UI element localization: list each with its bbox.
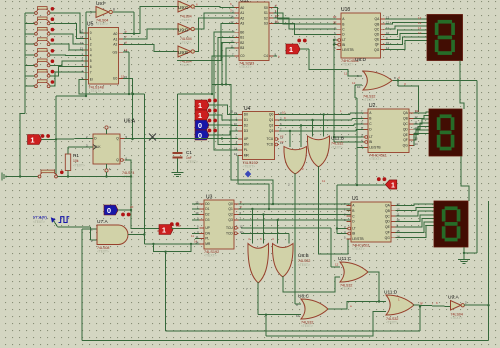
svg-text:12: 12 <box>418 21 422 25</box>
net label <box>322 179 325 183</box>
logic tag 0a <box>195 119 217 131</box>
wire U8B g2 out <box>283 276 340 292</box>
svg-text:A0: A0 <box>240 6 244 10</box>
svg-text:<TEXT>: <TEXT> <box>369 157 382 161</box>
net label <box>418 16 422 20</box>
svg-text:QE: QE <box>385 225 391 229</box>
svg-text:PL: PL <box>205 237 209 241</box>
IC U10 74HC4511 <box>334 7 390 67</box>
svg-text:Q2: Q2 <box>228 213 233 217</box>
svg-text:Q0: Q0 <box>228 202 233 206</box>
wire U loop <box>152 243 192 252</box>
net label <box>275 14 279 18</box>
svg-text:12: 12 <box>352 81 356 85</box>
svg-text:0: 0 <box>90 31 92 35</box>
svg-text:C4: C4 <box>264 54 268 58</box>
wire EI-E0 loop <box>79 78 134 95</box>
svg-text:15: 15 <box>234 111 238 115</box>
svg-text:Q: Q <box>116 158 119 162</box>
capacitor C1 <box>173 150 199 164</box>
IC U12 74LS283 <box>230 0 278 69</box>
wire bottom rail 1 <box>166 305 422 331</box>
svg-text:A2: A2 <box>113 43 117 47</box>
wire R1 top to CLK <box>68 147 93 154</box>
wire U3 DN stub <box>192 232 200 234</box>
wires U10 to display1 <box>385 19 429 50</box>
svg-text:A1: A1 <box>113 37 117 41</box>
wire y94 link <box>178 93 213 95</box>
OR gate U8:C <box>296 294 328 329</box>
wire U9:D out <box>195 13 235 29</box>
wire GS net <box>123 48 130 95</box>
svg-text:10: 10 <box>275 20 279 24</box>
wire U8:D in2 <box>355 85 364 147</box>
net label <box>415 109 420 113</box>
svg-text:QG: QG <box>403 144 409 148</box>
svg-text:13: 13 <box>80 46 84 50</box>
wire Q1 row U4-U2 <box>279 119 364 121</box>
svg-text:U5: U5 <box>87 22 94 28</box>
inverter U9:F <box>90 1 115 26</box>
svg-text:<TEXT>: <TEXT> <box>180 18 191 22</box>
IC U4 74LS192 <box>234 106 284 169</box>
wire E0 net down <box>131 94 133 140</box>
svg-text:12: 12 <box>80 41 84 45</box>
net label <box>196 3 198 7</box>
wire B3 net <box>225 48 235 86</box>
U6:A set pin <box>105 125 111 134</box>
svg-text:1: 1 <box>30 136 34 145</box>
svg-text:QE: QE <box>403 133 409 137</box>
svg-text:TCU: TCU <box>226 226 233 230</box>
svg-text:6: 6 <box>90 65 92 69</box>
wire B0 net <box>214 32 238 150</box>
push button SW7 <box>35 69 55 77</box>
inverter U9:C <box>178 1 194 22</box>
wire U9:A out <box>464 304 490 306</box>
net label <box>240 205 242 209</box>
wire probe row <box>337 184 386 186</box>
svg-text:D1: D1 <box>244 118 248 122</box>
svg-text:0: 0 <box>198 121 202 130</box>
wire U11:B out <box>319 166 352 254</box>
wire U7 out <box>128 234 144 236</box>
IC U3 74LS192 <box>195 195 243 258</box>
push button SW6 <box>35 59 55 67</box>
svg-text:C0: C0 <box>240 54 244 58</box>
svg-text:14: 14 <box>195 241 199 245</box>
wire left riser <box>55 95 87 178</box>
tap gateB left <box>311 119 313 137</box>
svg-text:LE/STB: LE/STB <box>342 48 354 52</box>
net label <box>272 237 274 241</box>
wire U9:F input <box>86 12 96 96</box>
svg-text:U9:E: U9:E <box>178 50 188 55</box>
svg-text:U6:A: U6:A <box>124 119 136 125</box>
svg-text:11: 11 <box>234 147 237 151</box>
IC U6:A 74LS74 <box>86 119 136 180</box>
svg-text:QA: QA <box>375 17 381 21</box>
svg-text:8: 8 <box>113 8 115 12</box>
probe 1 mid <box>159 222 179 234</box>
net label <box>125 30 127 34</box>
net label <box>240 200 242 204</box>
wire B2 net <box>221 43 235 86</box>
svg-text:U9:C: U9:C <box>178 5 189 10</box>
ground C1 <box>172 173 184 177</box>
IC U1 74HC4511 <box>344 196 400 251</box>
wire U8B g1 out <box>258 282 301 315</box>
wire C1 riser <box>177 94 179 152</box>
svg-text:UP: UP <box>244 137 249 141</box>
OR gate U8:B-1 down <box>246 244 269 292</box>
wire Q to U4 UP <box>125 137 239 139</box>
svg-text:U9:D: U9:D <box>178 28 189 33</box>
wire A3 feed <box>177 23 235 60</box>
svg-text:<TEXT>: <TEXT> <box>33 220 45 224</box>
logic tag 1a <box>195 99 217 111</box>
svg-text:2F: 2F <box>130 205 134 209</box>
svg-text:Q0: Q0 <box>269 113 274 117</box>
svg-text:U2: U2 <box>369 103 376 109</box>
svg-text:S2: S2 <box>264 16 268 20</box>
svg-text:<TEXT>: <TEXT> <box>97 250 109 254</box>
svg-text:Q1: Q1 <box>228 207 233 211</box>
net label <box>282 111 286 115</box>
OR gate U11:D <box>384 290 414 325</box>
ground left <box>2 173 6 181</box>
svg-text:U8:C: U8:C <box>298 294 309 300</box>
wire U7 in1 <box>82 229 97 239</box>
push button SW4 <box>35 38 55 46</box>
wire tag0 net <box>118 209 131 211</box>
svg-text:10: 10 <box>357 85 361 89</box>
wire U3 TCU net <box>241 228 340 267</box>
ground display3 <box>458 260 470 264</box>
svg-text:A3: A3 <box>240 22 244 26</box>
wire tag2 to D1 <box>209 115 238 120</box>
OR gate U8:B-2 down <box>272 244 310 278</box>
wire Q2 row U4-U2 <box>279 124 364 126</box>
svg-text:LE/STB: LE/STB <box>369 146 381 150</box>
net label <box>230 2 232 6</box>
logic probe C4 red 1 <box>286 39 307 55</box>
svg-text:QD: QD <box>374 33 380 37</box>
net label <box>176 224 181 228</box>
wire Qbar net <box>125 160 160 228</box>
svg-text:QG: QG <box>385 236 391 240</box>
svg-text:BI: BI <box>342 43 345 47</box>
svg-text:1G: 1G <box>415 109 420 113</box>
svg-text:U12: U12 <box>240 0 249 4</box>
net label <box>436 301 438 305</box>
net label <box>302 167 304 171</box>
OR gate U11:C <box>338 256 368 291</box>
svg-text:QB: QB <box>375 22 381 26</box>
svg-text:10: 10 <box>418 31 422 35</box>
svg-text:12: 12 <box>335 263 339 267</box>
wire bottom rail 2 <box>82 340 489 342</box>
svg-text:D1: D1 <box>205 207 209 211</box>
svg-text:<TEXT>: <TEXT> <box>363 98 375 102</box>
svg-text:<TEXT>: <TEXT> <box>340 287 352 291</box>
svg-text:D3: D3 <box>244 129 248 133</box>
wire U4 TCD stub <box>280 140 284 144</box>
svg-text:UP: UP <box>205 226 210 230</box>
tap gateB right <box>323 113 325 136</box>
svg-text:2F: 2F <box>333 20 337 24</box>
svg-text:10: 10 <box>234 122 238 126</box>
svg-text:U7:A: U7:A <box>97 219 108 225</box>
net label <box>335 263 339 267</box>
inverter U9:A <box>448 295 467 321</box>
wire mid link <box>212 84 274 205</box>
tap U8B g1 in1 <box>251 208 253 244</box>
svg-text:<TEXT>: <TEXT> <box>386 321 398 325</box>
wire C4 net <box>274 55 281 59</box>
wire U9:E out <box>195 18 235 51</box>
push button SW3 <box>35 27 55 35</box>
svg-text:BI: BI <box>369 140 372 144</box>
wire Q0 row U4-U2 <box>279 113 364 115</box>
wire Q3 row U4-U2 <box>279 130 364 132</box>
svg-text:<TEXT>: <TEXT> <box>331 146 343 150</box>
tap U8B g1 in2 <box>262 213 264 243</box>
wire rail riser <box>164 251 166 332</box>
svg-text:7: 7 <box>90 70 92 74</box>
svg-text:QD: QD <box>403 127 409 131</box>
OR gate U8:D <box>355 57 396 102</box>
wire reset row <box>6 175 38 177</box>
svg-text:11: 11 <box>344 72 347 76</box>
svg-text:<TEXT>: <TEXT> <box>352 247 365 251</box>
svg-text:1: 1 <box>198 101 202 110</box>
net label <box>275 4 277 8</box>
svg-text:QF: QF <box>375 43 380 47</box>
wire U9:C out <box>195 6 235 7</box>
net label <box>344 72 347 76</box>
wire long riser x144 <box>79 93 146 244</box>
wire C1 bottom <box>177 159 179 173</box>
svg-text:1F: 1F <box>333 15 337 19</box>
wire tag1 to D0 <box>209 105 238 115</box>
svg-text:14: 14 <box>415 142 419 146</box>
svg-text:0: 0 <box>107 206 111 215</box>
svg-text:QF: QF <box>403 138 408 142</box>
svg-text:S1: S1 <box>264 11 268 15</box>
svg-text:LE/STB: LE/STB <box>352 237 364 241</box>
IC U2 74HC4511 <box>361 103 418 161</box>
svg-text:<TEXT>: <TEXT> <box>451 316 463 320</box>
wire U3 PL stub <box>191 234 200 238</box>
tap gateA right <box>300 124 302 147</box>
svg-text:QB: QB <box>385 209 391 213</box>
no-connect X <box>149 134 156 141</box>
7-seg display 1 <box>427 15 463 61</box>
svg-text:B0: B0 <box>240 30 244 34</box>
svg-text:DN: DN <box>205 232 210 236</box>
svg-text:<TEXT>: <TEXT> <box>341 63 354 67</box>
net label <box>340 109 342 113</box>
wire A0 to U9:C <box>123 6 178 33</box>
svg-text:10: 10 <box>80 30 84 34</box>
clock source V7 <box>33 216 69 224</box>
svg-text:QD: QD <box>385 220 391 224</box>
wire LT-BI bus <box>333 39 364 142</box>
svg-text:3F: 3F <box>157 229 161 233</box>
svg-text:<TEXT>: <TEXT> <box>301 324 313 328</box>
svg-text:U9:F: U9:F <box>96 1 106 6</box>
wire reset row right <box>58 176 132 178</box>
wire U8:D out <box>393 76 478 255</box>
wire U2 LE riser <box>357 147 364 185</box>
svg-text:<TEXT>: <TEXT> <box>186 160 198 164</box>
svg-text:QF: QF <box>385 231 390 235</box>
wire C4 to U8:D <box>299 49 363 76</box>
wire tag to D <box>42 138 94 140</box>
svg-text:Q1: Q1 <box>269 118 274 122</box>
svg-text:D3: D3 <box>205 218 209 222</box>
svg-text:B1: B1 <box>240 36 244 40</box>
svg-text:14: 14 <box>230 15 234 19</box>
wire tag4 to D3 <box>209 131 238 135</box>
wire R1 bottom <box>67 171 69 178</box>
net label <box>121 75 125 79</box>
svg-text:LT: LT <box>342 38 346 42</box>
net label <box>352 81 356 85</box>
svg-text:U11:D: U11:D <box>384 290 398 296</box>
svg-text:U8:D: U8:D <box>355 57 366 63</box>
svg-text:1: 1 <box>391 182 395 189</box>
wire clock to U7 <box>54 221 98 240</box>
wire U4 TCU stub <box>280 135 284 139</box>
svg-text:A2: A2 <box>240 16 244 20</box>
svg-text:1: 1 <box>162 226 166 235</box>
svg-text:<TEXT>: <TEXT> <box>89 89 102 93</box>
svg-text:<TEXT>: <TEXT> <box>180 41 191 45</box>
svg-text:QC: QC <box>385 214 391 218</box>
IC U5 74LS148 <box>80 22 128 94</box>
7-seg display 3 <box>434 201 468 247</box>
7-seg display 2 <box>429 109 462 156</box>
svg-text:QC: QC <box>374 27 380 31</box>
wire U11:D out <box>413 302 451 307</box>
svg-text:U10: U10 <box>341 7 350 13</box>
svg-text:Q3: Q3 <box>228 218 233 222</box>
svg-text:TCD: TCD <box>267 143 274 147</box>
net label <box>130 205 134 209</box>
svg-text:BI: BI <box>352 232 355 236</box>
wire U1 LTBI riser <box>336 185 347 234</box>
svg-text:10: 10 <box>296 314 300 318</box>
push button reset <box>38 170 64 178</box>
svg-text:11: 11 <box>191 234 194 238</box>
blue tag 0 U7 <box>104 205 131 216</box>
svg-text:A1: A1 <box>240 11 244 15</box>
svg-text:TCD: TCD <box>226 232 233 236</box>
svg-text:<TEXT>: <TEXT> <box>96 22 108 26</box>
svg-text:<TEXT>: <TEXT> <box>239 65 252 69</box>
svg-text:PL: PL <box>244 148 248 152</box>
inverter U9:E <box>178 46 194 67</box>
wire U3 Q3 to U1 <box>239 220 365 222</box>
svg-text:QB: QB <box>403 117 409 121</box>
svg-text:<TEXT>: <TEXT> <box>204 254 217 258</box>
net label <box>418 26 421 30</box>
wire A1 to U9:D <box>123 29 178 39</box>
net label <box>230 9 232 13</box>
wire S1 to U10 <box>274 13 337 24</box>
svg-text:QA: QA <box>403 111 409 115</box>
svg-text:R1: R1 <box>73 153 79 158</box>
net label <box>157 229 161 233</box>
svg-text:11: 11 <box>418 26 421 30</box>
svg-text:QA: QA <box>385 204 391 208</box>
svg-text:14: 14 <box>124 48 128 52</box>
svg-text:S0: S0 <box>264 6 268 10</box>
svg-text:MR: MR <box>205 242 211 246</box>
wires buttons to U5 <box>50 13 84 86</box>
svg-text:LT: LT <box>352 227 356 231</box>
svg-text:C1: C1 <box>186 150 192 155</box>
wire U6:A R down <box>105 172 107 178</box>
svg-text:U11:C: U11:C <box>338 256 352 262</box>
push button SW8 <box>35 80 55 88</box>
svg-text:Y3: Y3 <box>280 140 284 144</box>
wire MR net <box>238 156 270 211</box>
wire disp3 gnd <box>463 247 465 259</box>
AND gate U7:A <box>91 219 133 254</box>
logic tag 1 left <box>28 134 50 145</box>
push button SW5 <box>35 49 55 57</box>
wire U11:C out <box>368 272 380 303</box>
svg-text:5: 5 <box>90 59 92 63</box>
wire button bus <box>20 13 34 177</box>
net label <box>275 20 279 24</box>
svg-text:E0: E0 <box>113 77 117 81</box>
net label <box>125 41 127 45</box>
wire U7 in2 <box>81 239 83 341</box>
svg-text:Y2: Y2 <box>280 135 284 139</box>
svg-text:Q2: Q2 <box>269 124 274 128</box>
svg-text:GS: GS <box>113 50 119 54</box>
svg-text:<TEXT>: <TEXT> <box>298 263 310 267</box>
svg-text:13: 13 <box>418 16 422 20</box>
net label <box>333 20 337 24</box>
push button SW2 <box>35 17 55 25</box>
blue diamond marker <box>245 171 251 178</box>
svg-text:5F: 5F <box>420 302 424 306</box>
tap U8B g2 in1 <box>277 219 279 244</box>
wire U8:C out <box>328 302 386 310</box>
push button SW1 <box>35 7 55 15</box>
net label <box>398 298 400 302</box>
svg-text:10k: 10k <box>73 159 79 163</box>
svg-text:D2: D2 <box>244 124 248 128</box>
svg-text:1: 1 <box>289 45 293 54</box>
wire S0 to U10 <box>274 8 337 19</box>
wire B1 net <box>218 37 238 144</box>
svg-text:B3: B3 <box>240 46 244 50</box>
wire disp2 to disp3 <box>461 156 469 201</box>
wire U8:D branch <box>397 79 419 112</box>
svg-text:11F: 11F <box>176 224 181 228</box>
wire U11:D in2 loop <box>265 312 386 337</box>
logic tag 0b <box>195 129 217 141</box>
U6:A reset pin <box>105 164 111 172</box>
OR gate U11:B down <box>307 136 344 168</box>
wire C0 net <box>211 56 235 95</box>
